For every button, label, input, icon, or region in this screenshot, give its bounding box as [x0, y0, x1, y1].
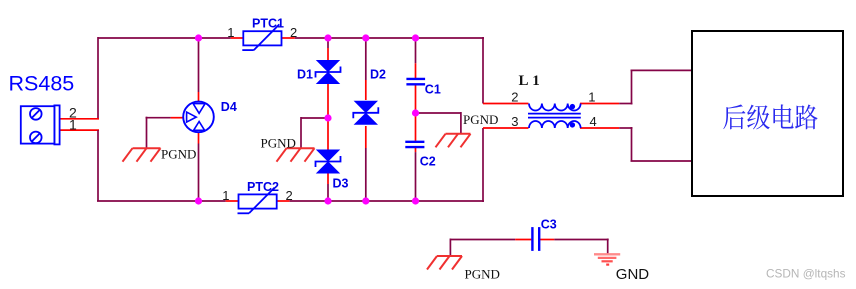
wire C1 branch top: [415, 38, 417, 63]
svg-text:1: 1: [227, 25, 234, 40]
svg-text:C1: C1: [425, 83, 441, 97]
svg-text:D2: D2: [370, 68, 386, 82]
resistor PTC1: [242, 24, 281, 50]
connector J1 RS485 terminal block: [21, 105, 60, 144]
svg-text:PTC2: PTC2: [247, 180, 279, 194]
junction dot bottom rail at D3: [324, 197, 331, 204]
wire PGND1 drop: [146, 117, 148, 148]
wire D4 top pin: [198, 92, 200, 102]
earth ground GND: [594, 254, 620, 264]
block 后级电路 (downstream circuit): [692, 31, 843, 196]
wire top rail right segment: [295, 37, 484, 39]
wire D3 branch bottom: [327, 184, 329, 201]
wire bottom rail right segment: [290, 200, 484, 202]
wire L1 pin4 to corner: [619, 127, 632, 129]
junction dot top rail at D1: [324, 34, 331, 41]
wire GND drop: [607, 239, 609, 255]
svg-text:PGND: PGND: [463, 112, 498, 127]
wire top rail to L1 vertical: [482, 37, 484, 104]
wire corner down vertical: [631, 127, 633, 161]
wire connector pin2 stub: [60, 118, 99, 120]
wire L1 pin1 to corner: [619, 103, 632, 105]
wire connector pin1 stub: [60, 129, 99, 131]
wire D4 left pin: [171, 117, 185, 119]
wire C1 top pin: [415, 63, 417, 78]
junction dot top rail at D4: [195, 34, 202, 41]
wire D4 bottom branch: [198, 144, 200, 202]
wire D4 to PGND horizontal: [146, 117, 171, 119]
wire D4 bottom pin: [198, 132, 200, 144]
svg-text:1: 1: [69, 117, 77, 133]
wire D3 top pin: [327, 118, 329, 151]
junction dot bottom rail at D4: [195, 197, 202, 204]
svg-text:D4: D4: [221, 100, 237, 114]
svg-text:PGND: PGND: [465, 266, 500, 281]
junction dot bottom rail at C2: [412, 197, 419, 204]
capacitor C1: [406, 79, 425, 84]
svg-text:GND: GND: [616, 266, 650, 283]
gas discharge tube D4: [183, 102, 214, 133]
wire PTC2 pin1 stub: [226, 200, 239, 202]
wire L1 pin4 stub: [580, 127, 619, 129]
wire D3 bottom pin: [327, 173, 329, 185]
label 后级电路 text: [723, 104, 817, 129]
wire C2 top pin: [415, 113, 417, 141]
wire D2 top pin: [365, 80, 367, 100]
diode D3: [316, 150, 341, 173]
capacitor C3: [532, 227, 539, 251]
wire bottom rail left segment: [97, 200, 226, 202]
junction dot top rail at D2: [362, 34, 369, 41]
power ground PGND near C1 C2: [436, 134, 471, 148]
svg-text:2: 2: [286, 188, 293, 203]
wire D2 branch top: [365, 38, 367, 80]
wire D1 bottom pin: [327, 83, 329, 119]
junction dot bottom rail at D2: [362, 197, 369, 204]
svg-text:PGND: PGND: [161, 146, 196, 161]
power ground PGND near D1 D3: [277, 148, 315, 162]
wire left loop vertical lower: [97, 130, 99, 201]
wire D1D3 mid to PGND horizontal: [301, 117, 328, 119]
junction dot top rail at C1: [412, 34, 419, 41]
wire PTC2 pin2 stub: [277, 200, 290, 202]
svg-text:PGND: PGND: [261, 135, 296, 150]
wire corner up vertical: [631, 70, 633, 104]
wire left loop vertical upper: [97, 37, 99, 119]
wire into box bottom: [631, 160, 693, 162]
svg-text:PTC1: PTC1: [252, 16, 284, 30]
capacitor C2: [405, 142, 424, 147]
wire C3 left segment: [450, 239, 515, 241]
wire D4 top branch: [198, 38, 200, 92]
wire D1 top pin: [327, 48, 329, 62]
wire mid node to PGND3 horizontal: [416, 112, 461, 114]
svg-text:1: 1: [222, 188, 229, 203]
wire PTC1 pin2 stub: [282, 37, 295, 39]
wire PGND4 drop: [449, 239, 451, 257]
wire C3 right segment: [554, 239, 608, 241]
wire D2 branch bottom: [365, 148, 367, 201]
wire D2 bottom pin: [365, 126, 367, 148]
wire L1 pin2 stub: [483, 103, 529, 105]
power ground PGND near C3: [427, 256, 462, 270]
wire C3 left pin: [515, 239, 531, 241]
wire D1 branch top: [327, 38, 329, 48]
svg-text:2: 2: [290, 25, 297, 40]
wire into box top: [631, 69, 693, 71]
wire L1 pin1 stub: [580, 103, 619, 105]
junction dot C1-C2 midpoint: [412, 109, 419, 116]
wire PGND2 drop: [300, 117, 302, 148]
wire PTC1 pin1 stub: [231, 37, 244, 39]
wire C3 right pin: [540, 239, 554, 241]
wire L1 pin3 stub: [483, 127, 529, 129]
svg-text:D3: D3: [333, 177, 349, 191]
diode D1: [316, 61, 341, 84]
power ground PGND near D4: [123, 148, 161, 162]
svg-text:2: 2: [511, 90, 518, 105]
svg-text:D1: D1: [297, 68, 313, 82]
svg-text:C2: C2: [420, 155, 436, 169]
svg-text:CSDN @ltqshs: CSDN @ltqshs: [766, 267, 846, 281]
svg-text:L1: L1: [519, 73, 544, 89]
junction dot D1-D3 midpoint: [324, 114, 331, 121]
svg-text:3: 3: [511, 114, 518, 129]
wire C2 bottom pin: [415, 148, 417, 152]
resistor PTC2: [238, 188, 277, 214]
wire PGND3 drop: [460, 112, 462, 134]
diode D2: [353, 101, 378, 124]
wire C2 branch bottom: [415, 152, 417, 201]
wire C1 bottom pin: [415, 85, 417, 113]
svg-text:C3: C3: [541, 217, 557, 231]
inductor L1 common-mode choke: [528, 104, 581, 129]
svg-text:RS485: RS485: [9, 72, 75, 96]
wire bottom rail to L1 vertical: [482, 128, 484, 202]
wire top rail left segment: [98, 37, 231, 39]
svg-text:4: 4: [590, 114, 597, 129]
svg-text:1: 1: [588, 90, 595, 105]
